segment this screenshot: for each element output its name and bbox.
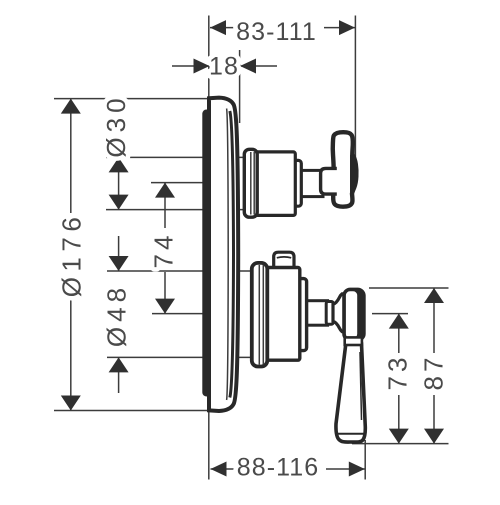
svg-text:73: 73 bbox=[383, 354, 413, 391]
svg-text:Ø30: Ø30 bbox=[101, 93, 131, 157]
dimension line Ø176 upper bbox=[70, 99, 72, 213]
lever neck ring bbox=[345, 337, 362, 345]
wall sleeve bbox=[202, 110, 210, 397]
extension line top of Ø30 bbox=[106, 156, 246, 158]
cross handle body bbox=[333, 132, 357, 206]
dimension line 83-111 left bbox=[210, 27, 234, 29]
dimension tail above Ø48 bbox=[118, 236, 120, 271]
svg-text:74: 74 bbox=[149, 232, 179, 269]
extension line bottom of Ø30 bbox=[106, 209, 246, 211]
lever hub cap dark edge bbox=[342, 288, 366, 342]
arrow right of 18 bbox=[240, 59, 256, 74]
svg-text:18: 18 bbox=[209, 53, 239, 81]
extension line top of 87 bbox=[369, 287, 449, 289]
arrow left of 18 bbox=[194, 59, 210, 74]
arrow top of 73 bbox=[389, 314, 409, 329]
lever arm inner right line bbox=[360, 352, 362, 420]
lever bell cone bbox=[333, 294, 345, 332]
dimension line Ø176 lower bbox=[70, 296, 72, 411]
upper handle hub bbox=[321, 168, 337, 194]
dimension line 74 upper bbox=[164, 183, 166, 228]
dimension tail right of 18 bbox=[240, 65, 277, 67]
arrow right of 83-111 bbox=[339, 20, 355, 35]
arrow left of 83-111 bbox=[210, 20, 226, 35]
arrow top of 74 bbox=[155, 183, 175, 198]
dimension line 88-116 left bbox=[211, 468, 236, 470]
extension line bottom of Ø48 bbox=[107, 356, 253, 358]
lower valve body bbox=[265, 268, 300, 361]
lower valve ribbed cap bbox=[252, 263, 267, 367]
dimension line 83-111 right bbox=[324, 27, 355, 29]
arrow top of 87 bbox=[424, 288, 444, 303]
lower valve step bbox=[298, 279, 306, 351]
arrow above Ø48 bbox=[109, 256, 129, 271]
upper valve cap rib 1 bbox=[250, 152, 252, 215]
extension line bottom of 73 and 87 bbox=[352, 443, 449, 445]
wall extension line bbox=[208, 16, 210, 480]
plate inner rim line bbox=[227, 109, 229, 401]
extension line right of 88-116 bbox=[364, 440, 366, 480]
dimension tail below Ø48 bbox=[118, 357, 120, 393]
extension line top of Ø48 bbox=[107, 270, 253, 272]
extension line bottom of 74 bbox=[152, 313, 208, 315]
dimension line 87 lower bbox=[433, 395, 435, 444]
arrow bottom of 73 bbox=[389, 429, 409, 444]
extension line right of 18 bbox=[239, 50, 241, 123]
lever arm foot line bbox=[337, 433, 364, 435]
upper valve ribbed cap bbox=[244, 149, 257, 217]
arrow bottom of Ø30 bbox=[109, 195, 129, 210]
arrow bottom of 74 bbox=[155, 299, 175, 314]
lower valve cap rib 2 bbox=[262, 265, 264, 365]
arrow top of Ø30 bbox=[109, 157, 129, 172]
extension line right of 83-111 bbox=[354, 16, 356, 160]
extension line top of 74 bbox=[151, 182, 208, 184]
svg-text:88-116: 88-116 bbox=[237, 454, 320, 482]
extension line top of 73 bbox=[372, 313, 408, 315]
lower valve stem bbox=[303, 301, 328, 326]
safety stop inner arc bbox=[277, 256, 291, 259]
dimension line 87 upper bbox=[433, 288, 435, 353]
arrow bottom of 87 bbox=[424, 429, 444, 444]
lower stem nut bbox=[326, 302, 333, 325]
dimension line 73 lower bbox=[398, 395, 400, 444]
plate front face line bbox=[230, 111, 234, 398]
arrow top of Ø176 bbox=[61, 99, 81, 114]
lever arm bbox=[336, 344, 365, 442]
lower valve cap rib 1 bbox=[258, 265, 260, 365]
svg-text:Ø176: Ø176 bbox=[57, 212, 87, 298]
svg-text:Ø48: Ø48 bbox=[102, 283, 132, 347]
arrow right of 88-116 bbox=[349, 462, 365, 477]
svg-text:83-111: 83-111 bbox=[236, 18, 317, 46]
extension line top of Ø176 bbox=[54, 98, 208, 100]
safety stop button bbox=[274, 252, 294, 270]
upper valve step bbox=[294, 160, 302, 206]
arrow left of 88-116 bbox=[211, 462, 227, 477]
upper valve stem bbox=[299, 170, 323, 196]
lever hub cap face bbox=[346, 291, 357, 338]
upper valve body bbox=[256, 152, 296, 216]
arrow bottom of Ø176 bbox=[61, 396, 81, 411]
dimension line 88-116 right bbox=[326, 468, 365, 470]
dimension tail left of 18 bbox=[172, 65, 209, 67]
dimension line 74 lower bbox=[164, 272, 166, 314]
upper valve cap rib 2 bbox=[253, 152, 255, 215]
cross handle right bulge band bbox=[350, 154, 356, 193]
escutcheon plate outline bbox=[209, 98, 238, 411]
svg-text:87: 87 bbox=[419, 354, 449, 391]
arrow below Ø48 bbox=[109, 357, 129, 372]
dimension line 73 upper bbox=[398, 314, 400, 353]
extension line bottom of Ø176 bbox=[54, 410, 208, 412]
dimension line Ø30 bbox=[118, 157, 120, 209]
